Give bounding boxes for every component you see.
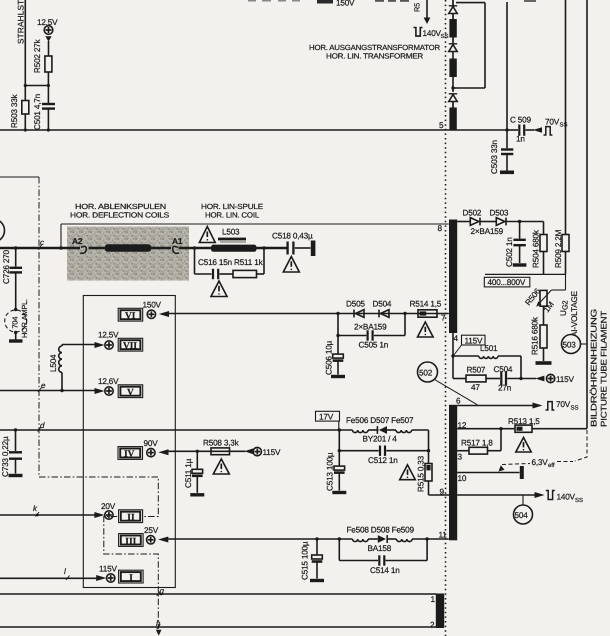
node 504 (module reference circle)	[514, 495, 533, 524]
resistor R514 1.5 (safety)	[410, 300, 442, 318]
svg-text:17V: 17V	[319, 413, 334, 422]
wire D502 line y=221.5	[457, 220, 543, 223]
capacitor C505 1n	[336, 314, 405, 350]
fusible link Fe507	[396, 430, 429, 433]
diode D504	[373, 300, 392, 318]
svg-text:C516 15n R511 1k: C516 15n R511 1k	[198, 258, 264, 267]
supply 150V	[143, 301, 170, 319]
pin 7	[441, 314, 446, 323]
svg-text:C511 1µ: C511 1µ	[184, 458, 193, 488]
svg-text:R514 1,5: R514 1,5	[410, 300, 442, 309]
svg-text:8: 8	[438, 224, 443, 233]
capacitor C516 15n + resistor R511 1k branch	[195, 248, 265, 279]
capacitor C503 33n	[490, 130, 514, 174]
node STRAHLST (beam current line label)	[17, 0, 26, 44]
svg-text:47: 47	[471, 383, 480, 392]
svg-text:A2: A2	[72, 236, 83, 246]
svg-text:C506 10µ: C506 10µ	[325, 340, 334, 375]
wire to 140Vss arrow	[424, 0, 431, 24]
label HOR ABLENKSPULEN	[70, 202, 169, 220]
warning triangle (near L503)	[199, 227, 215, 243]
svg-text:115V: 115V	[99, 565, 117, 574]
node 6.3Veff	[499, 430, 588, 472]
svg-text:12,6V: 12,6V	[98, 377, 119, 386]
node 115V label box	[454, 335, 486, 355]
svg-text:2×BA159: 2×BA159	[471, 227, 504, 236]
capacitor C733 0.22u	[1, 430, 23, 477]
resistor R502 27k	[33, 38, 52, 73]
svg-text:VII: VII	[123, 341, 137, 351]
svg-text:HOR. LIN. TRANSFORMER: HOR. LIN. TRANSFORMER	[326, 52, 423, 61]
connector IV	[118, 447, 143, 460]
resistor R513 1.5 (safety)	[508, 417, 540, 432]
capacitor C509 1n	[507, 116, 534, 144]
warning triangle (below R508)	[213, 459, 229, 474]
potentiometer R506 1M	[523, 274, 565, 314]
capacitor C504 27n	[494, 365, 537, 393]
svg-text:l: l	[64, 567, 66, 576]
node 503 (module reference circle)	[562, 335, 588, 354]
wire STRAHLST vertical	[24, 0, 26, 130]
node 400...800V label box	[484, 277, 530, 287]
svg-text:c: c	[40, 238, 44, 247]
wire d line y=430 (long horizontal)	[0, 428, 352, 431]
svg-text:R517 1,8: R517 1,8	[461, 439, 493, 448]
wire chain spine x=453	[452, 0, 454, 108]
svg-text:D502: D502	[463, 209, 482, 218]
connector II	[119, 510, 143, 523]
wire divider link y=275	[485, 273, 566, 275]
capacitor C515 100u (electrolytic)	[301, 539, 325, 581]
pin 5	[439, 121, 444, 130]
svg-text:II: II	[127, 513, 135, 523]
svg-text:G2: G2	[561, 300, 570, 310]
svg-text:SS: SS	[441, 33, 449, 40]
node h (boundary crossing tick)	[156, 619, 161, 629]
svg-text:A1: A1	[172, 236, 183, 246]
svg-text:7: 7	[441, 314, 446, 323]
node e (boundary crossing tick)	[38, 381, 46, 392]
pin 4	[454, 334, 459, 343]
wire tap bracket to x=485	[453, 3, 485, 88]
winding (bottom primary bar, pins 1-2)	[436, 594, 444, 629]
svg-text:C503 33n: C503 33n	[490, 139, 499, 174]
warning triangle (below C516)	[211, 281, 227, 297]
module box outline	[83, 296, 175, 588]
pin 12	[458, 421, 467, 430]
wire pin 10	[457, 466, 524, 479]
winding (EHT overwinding section 3)	[449, 108, 456, 131]
capacitor C512 1n	[338, 430, 429, 465]
svg-text:R508 3,3k: R508 3,3k	[203, 439, 240, 448]
svg-text:C 509: C 509	[510, 116, 531, 125]
diode D502	[463, 209, 482, 226]
wire 25V line y=539	[166, 537, 449, 540]
svg-text:e: e	[41, 381, 46, 390]
svg-text:L504: L504	[49, 354, 58, 372]
fusible link Fe509	[397, 539, 413, 542]
node tap junction y=88	[451, 86, 454, 89]
node c (boundary crossing tick)	[38, 238, 44, 250]
resistor R517 1.8	[457, 429, 501, 454]
svg-text:150V: 150V	[143, 301, 162, 310]
capacitor C518 0.43u (S-correction)	[272, 232, 315, 257]
svg-text:R507: R507	[467, 366, 486, 375]
svg-text:R504 680k: R504 680k	[532, 229, 541, 268]
warning triangle (left of R515)	[400, 465, 416, 480]
svg-text:V: V	[127, 388, 134, 398]
svg-text:HOR. DEFLECTION COILS: HOR. DEFLECTION COILS	[70, 211, 169, 220]
capacitor C513 100u (electrolytic)	[326, 451, 347, 493]
winding (EHT overwinding section 1)	[449, 19, 456, 38]
node l (boundary crossing tick)	[64, 567, 70, 580]
label BILDROEHRENHEIZUNG / PICTURE TUBE FILAMENT	[590, 309, 609, 427]
node U G2 AI-VOLTAGE	[559, 290, 579, 337]
pin 8	[438, 224, 443, 233]
winding (transformer bar segment pins 8-4)	[449, 220, 457, 334]
connector I	[119, 570, 144, 583]
svg-text:D503: D503	[490, 209, 509, 218]
warning triangle (below R513)	[516, 438, 531, 453]
wire vertical x=566 (to R509)	[565, 0, 567, 235]
svg-text:115V: 115V	[263, 448, 281, 457]
node 502 (module reference circle)	[418, 362, 478, 405]
svg-text:12,5V: 12,5V	[98, 331, 119, 340]
svg-text:C733 0,22µ: C733 0,22µ	[1, 436, 10, 477]
capacitor C726 270	[2, 248, 22, 310]
node 150V (cut label at top edge)	[336, 0, 355, 8]
node 70Vss output (arrow + pulse)	[533, 118, 568, 136]
svg-text:HOR. LIN. COIL: HOR. LIN. COIL	[205, 211, 259, 220]
node d (boundary crossing tick)	[38, 421, 46, 432]
resistor R508 3.3k	[203, 439, 240, 455]
resistor R504 680k	[532, 222, 548, 275]
terminal A2	[72, 236, 86, 253]
svg-text:2: 2	[430, 621, 435, 630]
label HOR LIN-SPULE	[201, 202, 263, 220]
supply +12.5V	[37, 18, 58, 56]
node g (boundary crossing tick)	[157, 587, 165, 596]
wire R502 bottom link	[24, 72, 50, 103]
supply 115V (pin 4 net)	[535, 374, 574, 384]
wire 12.6V from left	[0, 389, 98, 392]
svg-text:10: 10	[458, 474, 467, 483]
svg-text:PICTURE TUBE FILAMENT: PICTURE TUBE FILAMENT	[600, 311, 609, 427]
diode (EHT chain 3)	[449, 94, 457, 102]
svg-text:C505 1n: C505 1n	[359, 341, 389, 350]
svg-text:140V: 140V	[423, 29, 442, 38]
supply 115V (connector I)	[96, 565, 117, 583]
svg-text:SS: SS	[560, 122, 568, 129]
wire pin 12	[457, 427, 587, 430]
capacitor C502 1n	[505, 222, 526, 268]
svg-text:BA158: BA158	[368, 544, 392, 553]
svg-text:502: 502	[419, 369, 433, 378]
wire pin 4 stem	[451, 333, 454, 358]
warning triangle (below C518)	[283, 257, 299, 273]
svg-text:2×BA159: 2×BA159	[354, 323, 387, 332]
svg-text:R503 33k: R503 33k	[10, 93, 19, 128]
capacitor C514 1n	[339, 539, 427, 575]
pin 1	[431, 595, 436, 604]
svg-text:503: 503	[563, 341, 577, 350]
svg-text:C518 0,43µ: C518 0,43µ	[272, 232, 313, 241]
svg-text:C504: C504	[494, 365, 513, 374]
svg-text:Fe508 D508 Fe509: Fe508 D508 Fe509	[347, 526, 415, 535]
wire 20V from left	[0, 514, 97, 516]
capacitor C511 1u (electrolytic)	[184, 451, 204, 495]
svg-text:L503: L503	[222, 228, 240, 237]
svg-text:C515 100µ: C515 100µ	[301, 541, 310, 580]
supply 90V	[144, 439, 169, 457]
svg-text:h: h	[156, 619, 161, 628]
svg-text:R5: R5	[413, 3, 422, 12]
node 17V label box	[316, 411, 340, 430]
svg-text:1: 1	[431, 595, 436, 604]
svg-text:R502 27k: R502 27k	[33, 38, 42, 73]
svg-text:Fe506 D507 Fe507: Fe506 D507 Fe507	[346, 416, 414, 425]
svg-text:C502 1n: C502 1n	[505, 237, 514, 267]
svg-text:R509 2,2M: R509 2,2M	[554, 229, 563, 268]
svg-text:504: 504	[515, 511, 529, 520]
svg-text:C501 4,7n: C501 4,7n	[33, 93, 42, 130]
svg-text:6,3V: 6,3V	[532, 458, 549, 467]
fusible link Fe508	[353, 539, 369, 542]
wire thin line y=224 to pin 8	[61, 224, 449, 248]
connector V	[118, 385, 143, 398]
supply 25V	[144, 526, 168, 544]
terminal A1	[172, 236, 183, 253]
svg-text:140V: 140V	[557, 493, 576, 502]
wire vertical x=587 (picture tube filament line)	[586, 0, 588, 429]
svg-text:D505: D505	[346, 300, 365, 309]
svg-text:g: g	[160, 587, 165, 596]
wire 17V net vertical x=428.5	[427, 430, 430, 464]
svg-text:25V: 25V	[144, 526, 159, 535]
svg-text:D504: D504	[373, 300, 392, 309]
diode D503	[490, 209, 509, 226]
diode D508 BA158	[368, 535, 397, 553]
svg-text:4: 4	[454, 334, 459, 343]
svg-text:R516 680k: R516 680k	[531, 316, 540, 355]
label 2xBA159	[354, 323, 387, 332]
resistor R507 47	[453, 356, 500, 392]
svg-text:70V: 70V	[545, 118, 560, 127]
svg-text:90V: 90V	[144, 439, 159, 448]
wire bottom line 2	[0, 626, 437, 628]
label Fe506 D507 Fe507	[346, 416, 414, 425]
svg-text:STRAHLST: STRAHLST	[17, 0, 26, 44]
connector III	[119, 534, 144, 547]
warning triangle (below R514)	[418, 322, 434, 337]
pin 11	[439, 531, 448, 540]
svg-text:1n: 1n	[516, 135, 525, 144]
supply 115V (right of R508)	[244, 447, 281, 457]
diode D505	[346, 300, 365, 318]
diode (EHT chain 2)	[449, 44, 457, 52]
node 140Vss pulse (pin 9)	[546, 491, 583, 505]
winding (EHT overwinding section 2)	[449, 59, 456, 78]
svg-text:I: I	[129, 574, 133, 584]
svg-text:704: 704	[11, 317, 20, 329]
svg-text:BY201 / 4: BY201 / 4	[363, 435, 398, 444]
svg-text:11: 11	[439, 531, 448, 540]
pin 9	[440, 488, 445, 497]
wire bottom line 1	[0, 593, 437, 595]
label HOR AUSGANGSTRANSFORMATOR	[309, 43, 440, 61]
svg-text:115V: 115V	[556, 375, 574, 384]
svg-text:SS: SS	[571, 405, 579, 412]
node 140Vss pulse symbol (top)	[414, 27, 449, 40]
node 70Vss pulse (pin 6)	[546, 400, 579, 412]
ground (below R516)	[536, 361, 552, 365]
svg-text:L501: L501	[480, 344, 498, 353]
svg-text:27n: 27n	[498, 384, 512, 393]
resistor R515 0.33 (safety)	[417, 455, 433, 495]
svg-text:IV: IV	[124, 450, 135, 460]
svg-text:VI: VI	[125, 311, 136, 321]
diode (top of EHT chain)	[449, 6, 457, 14]
node R5.. (cut vertical label)	[413, 3, 422, 12]
svg-text:AI-VOLTAGE: AI-VOLTAGE	[570, 290, 579, 337]
node 704 HOR.AMPL (dashed circle reference)	[5, 299, 29, 341]
diode D507 BY201/4	[363, 426, 398, 443]
pin 3	[458, 453, 463, 462]
scan artifact marks top edge	[248, 0, 536, 4]
winding (transformer bar segment pins 6-11)	[449, 405, 457, 541]
svg-text:5: 5	[439, 121, 444, 130]
inductor L501	[453, 344, 523, 380]
capacitor C501 4.7n	[33, 93, 55, 130]
label 2xBA159 (D502/D503)	[471, 227, 504, 236]
connector VII	[118, 338, 143, 351]
connector VI	[118, 308, 143, 321]
wire 115V from left	[0, 577, 99, 579]
label Fe508 D508 Fe509	[347, 526, 415, 535]
resistor R503 33k	[10, 93, 29, 128]
wire 90V line y=451.3	[166, 450, 246, 453]
resistor R509 2.2M	[554, 229, 569, 274]
coil horizontal deflection winding	[105, 244, 151, 251]
pin 6	[456, 397, 461, 406]
wire main horizontal line y=130	[0, 128, 507, 131]
svg-text:400...800V: 400...800V	[488, 278, 526, 287]
svg-text:70V: 70V	[556, 400, 571, 409]
svg-text:C514 1n: C514 1n	[370, 566, 400, 575]
inductor L504	[49, 345, 98, 391]
wire 150V line y=313.5	[166, 312, 449, 315]
svg-text:C512 1n: C512 1n	[368, 456, 398, 465]
svg-text:6: 6	[456, 397, 461, 406]
transistor 702 circle fragment at left edge	[0, 219, 5, 242]
svg-text:SS: SS	[575, 497, 583, 504]
svg-text:C513 100µ: C513 100µ	[326, 452, 335, 491]
resistor R516 680k	[531, 306, 548, 361]
wire pin 6	[457, 403, 542, 409]
svg-text:III: III	[125, 537, 136, 547]
supply 12.6V	[95, 377, 120, 395]
wire main bold deflection line y=248	[0, 246, 287, 250]
wire vertical x=507 (to C509 node)	[505, 2, 508, 132]
svg-text:3: 3	[458, 453, 463, 462]
svg-text:eff: eff	[548, 462, 555, 469]
pin 10	[458, 474, 467, 483]
fusible link Fe506	[352, 430, 368, 433]
svg-text:150V: 150V	[336, 0, 355, 8]
svg-text:BILDRÖHRENHEIZUNG: BILDRÖHRENHEIZUNG	[590, 309, 599, 427]
wire pin 9	[429, 492, 545, 498]
svg-text:HOR.AMPL.: HOR.AMPL.	[20, 299, 29, 338]
node k (boundary crossing tick)	[33, 504, 39, 517]
svg-text:C726 270: C726 270	[2, 249, 11, 284]
svg-text:d: d	[40, 421, 45, 430]
svg-text:20V: 20V	[101, 502, 116, 511]
inductor L503 (lin coil)	[211, 228, 257, 252]
pin 2	[430, 621, 435, 630]
deflection coils shaded block	[67, 227, 189, 281]
capacitor C506 10u (electrolytic)	[325, 336, 346, 377]
module boundary dotted line x=445.5	[445, 0, 447, 636]
module boundary dash-dot x=39	[0, 177, 162, 636]
svg-text:R515 0,33: R515 0,33	[417, 455, 426, 492]
supply 12.5V	[95, 331, 120, 350]
supply 20V	[94, 502, 115, 519]
